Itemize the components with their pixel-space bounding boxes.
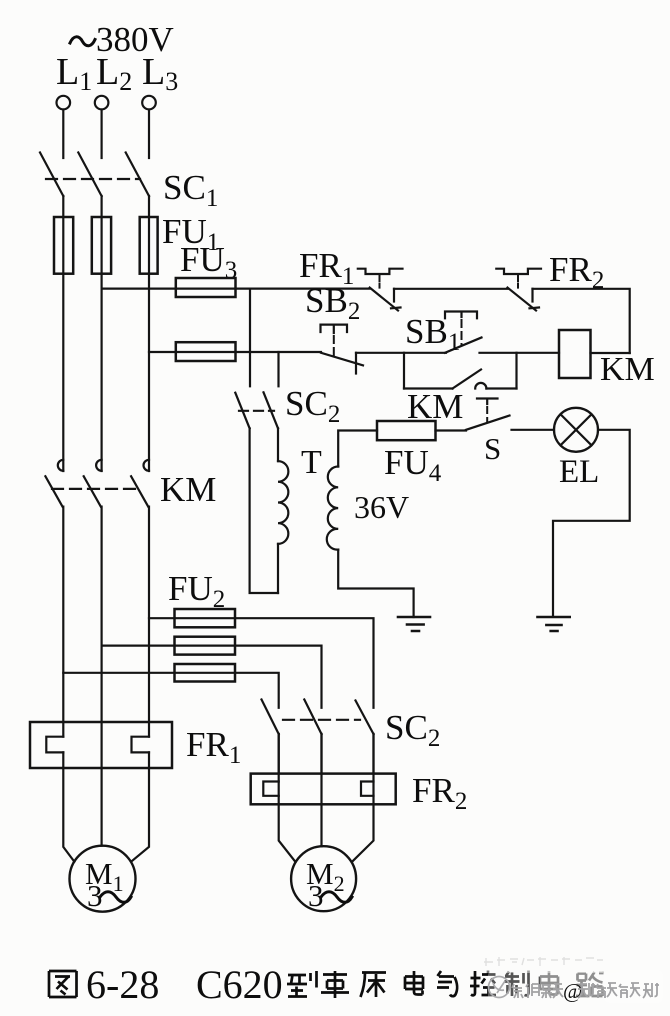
contact KM auxiliary (NO) blade: [453, 370, 482, 389]
wire FU2 branch 2: [102, 646, 322, 708]
relay FR1 heater element phase C: [132, 737, 150, 753]
contactor KM main contact 1 fixed arc: [58, 460, 63, 471]
lamp EL circle: [554, 408, 598, 452]
switch SC1 label: [163, 168, 218, 212]
relay contact FR2 right fixed contact: [531, 289, 533, 302]
switch SC2 control label: [285, 384, 340, 428]
ground symbol (transformer): [398, 617, 430, 631]
svg-text:FR1: FR1: [186, 725, 241, 769]
wire SC2 pole2 to transformer primary: [277, 428, 279, 461]
motor M2 label: [306, 856, 352, 913]
wire lamp to ground: [553, 430, 630, 617]
wire secondary bottom to ground: [338, 550, 413, 617]
transformer secondary 36V label: [354, 489, 409, 525]
switch S blade: [466, 416, 510, 430]
caption hanzi XING (type): [287, 971, 317, 997]
node ~380V supply label: [70, 20, 174, 59]
switch SC2 power pole 1 blade: [262, 700, 279, 735]
svg-text:L1: L1: [56, 51, 92, 96]
fuse FU4: [377, 421, 436, 440]
wire KM aux branch right rise: [515, 353, 517, 389]
switch SC2 power pole 3 blade: [356, 701, 374, 735]
switch SC1 pole 3 blade: [126, 153, 149, 197]
wire phase C below KM: [148, 507, 150, 737]
wire FU2 branch 3: [63, 673, 278, 708]
caption hanzi CHE (machine/car): [321, 971, 349, 998]
wire KM coil right lead: [591, 352, 630, 354]
svg-text:FR2: FR2: [412, 771, 467, 815]
watermark faint upper ghost: [484, 957, 603, 966]
contactor KM main label: [160, 470, 216, 509]
caption hanzi TU (figure): [49, 971, 77, 997]
wire rail 2 SB2 to SB1: [356, 352, 446, 354]
contactor KM main contact 3 fixed arc: [144, 460, 150, 471]
button SB2 label: [305, 281, 360, 325]
relay contact FR2 tip tick: [530, 306, 540, 309]
wire KM aux branch bottom left: [404, 387, 453, 389]
fuse FU3 lower: [176, 342, 236, 361]
svg-text:36V: 36V: [354, 489, 409, 525]
contactor KM main linkage dashed: [52, 488, 142, 490]
wire M2 phase 2: [320, 734, 322, 846]
wire M2 phase 3: [352, 734, 374, 862]
contactor KM main contact 2 fixed arc: [96, 460, 102, 471]
button SB1 blade: [445, 338, 482, 353]
switch SC1 pole 1 blade: [40, 153, 63, 197]
switch SC2 power pole 2 blade: [304, 700, 321, 735]
caption hanzi ZHI (make): [505, 971, 529, 997]
ground symbol (lamp): [538, 617, 570, 631]
svg-text:FR2: FR2: [549, 250, 604, 294]
motor M1 circle: [70, 846, 136, 912]
button SB1 dashed stem: [461, 320, 463, 345]
button SB2 blade: [321, 353, 363, 366]
relay contact FR1 (NC) thermal bracket: [358, 269, 403, 274]
node L2 label: [96, 51, 132, 96]
motor M2 circle: [291, 846, 356, 911]
terminal L1: [57, 96, 71, 110]
relay FR1 heater label: [186, 725, 241, 769]
contactor KM main contact 2 blade: [84, 476, 101, 506]
caption hanzi LU (circuit/road): [576, 972, 604, 996]
transformer T label: [301, 444, 322, 481]
wire phase B from terminal to switch: [100, 110, 102, 158]
watermark white halo: [480, 955, 663, 1003]
switch SC2 control linkage dashed: [239, 410, 274, 412]
svg-text:T: T: [301, 444, 322, 481]
wire control rail 1 from phase B: [102, 288, 370, 290]
wire SC2 control pole 1 drop from rail 1: [249, 289, 251, 387]
contactor KM main contact 1 blade: [45, 476, 62, 506]
node L3 label: [142, 51, 178, 96]
svg-text:S: S: [484, 431, 501, 466]
transformer T secondary winding: [327, 467, 338, 550]
lamp EL label: [559, 454, 599, 490]
wire FU2 branch 1: [149, 618, 374, 708]
wire transformer secondary top lead: [338, 431, 377, 467]
wire rail 1 between FR1 and FR2: [394, 288, 508, 290]
coil KM label: [600, 351, 655, 388]
switch SC2 control pole 1 blade: [235, 393, 249, 429]
svg-text:EL: EL: [559, 454, 599, 490]
wire primary bottom lead: [277, 544, 279, 593]
svg-text:KM: KM: [600, 351, 655, 388]
fuse FU1 pole 2: [92, 217, 111, 274]
svg-text:SC2: SC2: [285, 384, 340, 428]
relay contact FR1 label: [299, 246, 354, 290]
fuse FU2 pole 3: [175, 664, 236, 682]
wire rail 2 SB1 to KM coil: [480, 352, 560, 354]
caption text block: [49, 971, 386, 998]
switch SC2 power linkage dashed: [283, 719, 360, 721]
caption hanzi KONG (control): [470, 971, 496, 996]
watermark text (wechat contact): [512, 984, 563, 998]
relay FR2 heater label: [412, 771, 467, 815]
relay FR2 heater element 1: [263, 782, 278, 796]
button SB1 (NO) actuator: [445, 312, 477, 319]
switch SC2 control pole 2 blade: [264, 392, 279, 428]
caption hanzi QI (gas): [437, 971, 457, 996]
wire phase B below KM: [100, 507, 102, 846]
wire SC2 pole1 to primary loop bottom: [250, 428, 278, 593]
switch S label: [484, 431, 501, 466]
wire SC2 power outputs: [279, 734, 374, 774]
svg-text:FU4: FU4: [384, 443, 442, 487]
fuse FU1 label: [162, 212, 219, 256]
wire phase A to motor 1: [63, 752, 74, 861]
button SB2 right fixed contact: [355, 353, 357, 374]
svg-text:@: @: [563, 979, 582, 1003]
relay contact FR1 actuator dashed stem: [379, 274, 381, 288]
watermark logo: [489, 977, 510, 998]
button SB1 label: [405, 312, 460, 356]
wire control rail 2 from phase C: [149, 351, 321, 353]
wire SC2 control pole 2 drop from rail 2: [277, 352, 279, 386]
svg-text:6-28: 6-28: [86, 962, 159, 1007]
wire KM aux branch bottom right: [486, 387, 516, 389]
fuse FU4 label: [384, 443, 442, 487]
svg-text:SB1: SB1: [405, 312, 460, 356]
switch SC1 linkage dashed: [46, 178, 140, 180]
svg-text:FU2: FU2: [168, 569, 225, 613]
fuse FU3 label: [180, 240, 237, 284]
caption hanzi CHUANG (bed): [361, 973, 387, 998]
button SB2 dashed stem: [333, 336, 335, 356]
terminal L3: [142, 96, 156, 110]
fuse FU3 upper: [176, 278, 236, 297]
switch SC2 power label: [385, 708, 440, 752]
wire phase A below KM: [62, 507, 64, 737]
relay contact FR1 right fixed contact: [393, 289, 395, 302]
relay contact FR2 actuator dashed stem: [517, 274, 519, 288]
svg-text:SC2: SC2: [385, 708, 440, 752]
switch S actuator bar: [477, 399, 498, 405]
coil KM contactor: [559, 330, 591, 378]
fuse FU1 pole 1: [54, 217, 73, 274]
wire KM aux branch left drop: [403, 353, 405, 389]
wire phase A switch to fuse: [62, 196, 64, 471]
node L1 label: [56, 51, 92, 96]
relay FR1 heater element phase A: [46, 737, 63, 753]
lamp EL cross: [561, 414, 592, 445]
wire phase A from terminal to switch: [62, 110, 64, 158]
switch S dashed stem: [486, 407, 488, 422]
relay FR2 heater box: [251, 774, 396, 805]
svg-text:KM: KM: [160, 470, 216, 509]
wire phase B switch to fuse: [100, 196, 102, 471]
contact KM auxiliary fixed contact arc: [475, 383, 486, 389]
button SB2 (NC) actuator: [321, 325, 348, 333]
relay contact FR2 blade: [508, 288, 537, 311]
wire phase C from terminal to switch: [148, 110, 150, 158]
svg-text:SC1: SC1: [163, 168, 218, 212]
relay contact FR2 (NC) thermal bracket: [496, 269, 541, 274]
fuse FU2 label: [168, 569, 225, 613]
fuse FU2 pole 2: [175, 637, 236, 655]
wire S to lamp: [512, 429, 555, 431]
relay contact FR1 blade: [370, 288, 398, 311]
wire M2 phase 1: [279, 734, 296, 862]
wire FU4 to switch S: [436, 429, 467, 431]
contact KM auxiliary label: [407, 387, 463, 426]
relay contact FR1 tip tick: [391, 306, 401, 309]
switch SC1 pole 2 blade: [78, 153, 101, 197]
terminal L2: [95, 96, 109, 110]
svg-text:C620: C620: [196, 962, 283, 1007]
relay FR1 heater box: [30, 722, 172, 768]
wire phase C switch to fuse: [148, 196, 150, 471]
fuse FU1 pole 3: [140, 217, 158, 274]
motor M1 label: [85, 856, 131, 913]
fuse FU2 pole 1: [175, 609, 236, 627]
wire phase C to motor 1: [131, 752, 149, 861]
relay FR2 heater element 3: [361, 782, 374, 796]
relay contact FR2 label: [549, 250, 604, 294]
caption hanzi DIAN (electric): [405, 971, 423, 995]
wire rail 1 FR2 to right rail: [533, 289, 630, 353]
transformer T primary winding: [278, 461, 288, 544]
caption hanzi DIAN (electric) 2: [540, 971, 558, 995]
contactor KM main contact 3 blade: [131, 476, 148, 506]
